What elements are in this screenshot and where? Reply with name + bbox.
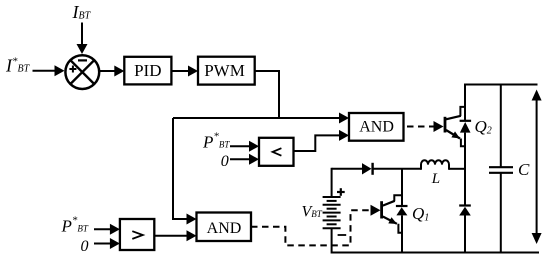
wire bottom rail (332, 252, 539, 254)
plus sign (69, 66, 76, 73)
label Q1 (412, 204, 429, 224)
label V_BT (302, 204, 323, 221)
wire comparator lt to AND1 (294, 130, 350, 151)
output voltage arrow (532, 90, 542, 245)
label I*_BT (5, 56, 31, 76)
svg-text:PID: PID (134, 61, 161, 80)
wire AND2 to Q1 gate (dashed) (251, 205, 381, 246)
wire AND1 to Q2 gate (dashed) (404, 121, 444, 132)
wire sum to PID (100, 66, 124, 77)
wire top rail (464, 84, 538, 86)
label I_BT (72, 2, 92, 22)
wire PWM output down (255, 71, 279, 118)
label L (431, 171, 440, 187)
battery minus sign (338, 234, 347, 236)
battery plus sign (337, 188, 345, 196)
summing junction (65, 55, 99, 89)
wire I_BT down arrow (77, 23, 88, 55)
svg-text:0: 0 (81, 238, 89, 255)
capacitor C (489, 85, 513, 253)
label 0 (upper) (221, 153, 229, 170)
wire I*_BT input arrow (33, 65, 65, 76)
block AND2 (197, 213, 252, 242)
svg-text:AND: AND (359, 119, 394, 136)
transistor Q2 (445, 107, 465, 146)
wire branch down to AND2 (173, 118, 197, 225)
svg-text:C: C (518, 160, 530, 179)
wire P*_BT to comparator gt (94, 224, 120, 235)
minus sign (78, 59, 87, 61)
block AND1 (349, 113, 404, 141)
svg-text:L: L (431, 171, 440, 187)
transistor Q1 (382, 169, 402, 253)
block comparator gt (120, 219, 154, 250)
diode Din (battery line) (332, 163, 402, 175)
wire 0 to comparator gt (94, 238, 120, 249)
wire 0 to comparator lt (230, 154, 259, 165)
label P*_BT (lower) (61, 215, 89, 236)
diode D3 (lower leg) (459, 206, 471, 216)
diode D2 (antiparallel with Q2) (460, 121, 472, 133)
svg-text:AND: AND (207, 220, 242, 237)
diode D1 (antiparallel with Q1) (396, 206, 408, 215)
battery V_BT (323, 168, 341, 254)
wire comparator gt to AND2 (154, 230, 196, 241)
wire leg rail Q2 (464, 84, 466, 253)
wire bus to AND1 (173, 113, 349, 124)
label 0 (lower) (81, 238, 89, 255)
label C (518, 160, 530, 179)
block PID (124, 57, 171, 85)
svg-text:PWM: PWM (204, 61, 245, 80)
block PWM (198, 57, 255, 85)
block comparator lt (259, 138, 294, 166)
svg-text:0: 0 (221, 153, 229, 170)
label Q2 (475, 117, 492, 137)
inductor L (402, 160, 465, 170)
label P*_BT (upper) (202, 131, 230, 152)
wire P*_BT to comparator lt (230, 141, 259, 152)
wire PID to PWM (171, 66, 198, 77)
